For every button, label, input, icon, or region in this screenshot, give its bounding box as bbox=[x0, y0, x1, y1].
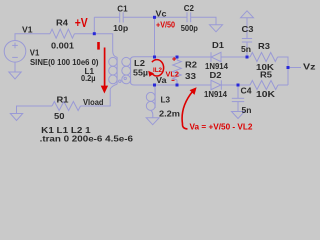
junction Vc row / R2 top bbox=[153, 56, 156, 59]
svg-text:Vload: Vload bbox=[83, 97, 104, 107]
annotation VL2 plus bbox=[172, 57, 176, 61]
node +V junction bbox=[93, 32, 96, 35]
annotation current arrow shaft bbox=[104, 48, 106, 87]
phase dot L1 bbox=[119, 80, 121, 82]
svg-text:+V: +V bbox=[75, 16, 89, 30]
junction Vz bbox=[287, 66, 290, 69]
svg-text:Vc: Vc bbox=[156, 8, 167, 18]
wire node A row (Va) bbox=[141, 84, 155, 86]
svg-text:5n: 5n bbox=[242, 105, 252, 115]
svg-text:33: 33 bbox=[185, 71, 196, 81]
flipped ground above C3 bbox=[241, 11, 254, 18]
wire D2 leads bbox=[177, 84, 211, 86]
annotation IL2 arrow head bbox=[148, 71, 154, 77]
diode D2 bbox=[211, 80, 221, 89]
wire R5 to right rail bbox=[278, 84, 288, 86]
wire R4 to node +V bbox=[75, 33, 95, 35]
inductor L2 bbox=[131, 57, 155, 59]
wire V1 top to R4 bbox=[15, 34, 50, 41]
resistor R5 bbox=[250, 81, 278, 90]
annotation VL2 minus bbox=[172, 79, 175, 81]
wire node Vc to C2 bbox=[155, 16, 188, 18]
annotation Va arrow curve bbox=[182, 92, 192, 130]
junction D2 / C4 bbox=[237, 84, 240, 87]
capacitor C2 bbox=[186, 12, 188, 22]
ground below C4 bbox=[232, 112, 245, 119]
resistor R1 bbox=[52, 102, 80, 111]
svg-text:R3: R3 bbox=[258, 41, 270, 51]
svg-text:L3: L3 bbox=[161, 94, 171, 104]
wire C2 to ground bbox=[191, 17, 216, 24]
junction Va / R2 bottom bbox=[176, 84, 179, 87]
svg-text:10p: 10p bbox=[113, 23, 128, 33]
wire Vc riser bbox=[154, 17, 156, 57]
diode D1 bbox=[211, 52, 221, 61]
svg-text:10K: 10K bbox=[256, 89, 276, 99]
svg-text:V1: V1 bbox=[22, 24, 33, 34]
wire C1 to node Vc bbox=[123, 16, 154, 18]
svg-text:0.2µ: 0.2µ bbox=[81, 73, 96, 83]
resistor R4 bbox=[50, 29, 74, 38]
svg-text:1N914: 1N914 bbox=[204, 89, 227, 99]
svg-text:R1: R1 bbox=[57, 95, 69, 105]
inductor L3 bbox=[154, 85, 157, 108]
svg-text:0.001: 0.001 bbox=[51, 40, 74, 50]
voltage source V1 bbox=[4, 41, 26, 63]
wire D2 node to R5 bbox=[238, 84, 250, 86]
svg-text:D1: D1 bbox=[212, 40, 224, 50]
wire node +V to L1 riser bbox=[94, 34, 112, 51]
annotation IL2 loop bbox=[152, 60, 164, 76]
ground below V1 bbox=[9, 72, 21, 79]
wire Vz stub bbox=[288, 67, 301, 69]
svg-text:IL2: IL2 bbox=[153, 67, 162, 74]
ground below R1 bbox=[10, 114, 22, 121]
ground below L3 bbox=[146, 118, 159, 125]
wire node Vc row to R2 junction bbox=[155, 56, 178, 58]
phase dot L2 bbox=[124, 77, 126, 79]
svg-text:Va = +V/50 - VL2: Va = +V/50 - VL2 bbox=[190, 121, 253, 131]
inductor L1 bbox=[113, 51, 117, 84]
capacitor C3 bbox=[242, 38, 252, 40]
wire R1 left to ground bbox=[17, 106, 53, 113]
svg-text:D2: D2 bbox=[210, 70, 222, 80]
wire R3 to right rail bbox=[278, 57, 288, 85]
svg-text:+V/50: +V/50 bbox=[156, 20, 175, 30]
svg-text:Vz: Vz bbox=[303, 61, 316, 71]
svg-text:VL2: VL2 bbox=[166, 69, 180, 78]
svg-text:R2: R2 bbox=[185, 60, 197, 70]
annotation current I letter bbox=[97, 42, 100, 50]
svg-text:50: 50 bbox=[54, 111, 65, 121]
annotation current arrow head bbox=[101, 86, 108, 94]
node Vc junction bbox=[153, 16, 156, 19]
junction dots bbox=[93, 16, 290, 87]
resistor R3 bbox=[247, 56, 250, 58]
annotation Va arrow head bbox=[190, 87, 197, 95]
junction D1 / C3 bbox=[246, 56, 249, 59]
wire R2 junction to D1 bbox=[177, 56, 211, 58]
capacitor C1 bbox=[119, 12, 121, 22]
ground after C2 bbox=[210, 25, 223, 32]
capacitor C4 bbox=[237, 85, 239, 98]
svg-text:5n: 5n bbox=[241, 44, 251, 54]
svg-text:C3: C3 bbox=[242, 24, 254, 34]
wire D1 to node C3 bbox=[221, 56, 247, 58]
svg-text:.tran 0 200e-6 4.5e-6: .tran 0 200e-6 4.5e-6 bbox=[40, 133, 134, 143]
resistor R2 bbox=[173, 60, 182, 80]
wire R1 right to L1 (Vload) bbox=[81, 105, 111, 107]
red annotations bbox=[75, 16, 253, 131]
wire node +V up to top rail bbox=[93, 17, 95, 33]
junction Va / L3 bbox=[153, 84, 156, 87]
svg-text:C4: C4 bbox=[241, 85, 252, 95]
wire top rail to C1 bbox=[94, 16, 119, 18]
svg-text:55µ: 55µ bbox=[133, 67, 148, 77]
svg-text:R4: R4 bbox=[56, 17, 68, 27]
wire V1 bottom to ground bbox=[14, 62, 16, 72]
black labels bbox=[22, 3, 316, 143]
svg-text:C2: C2 bbox=[184, 3, 194, 13]
svg-text:C1: C1 bbox=[117, 3, 128, 13]
svg-text:R5: R5 bbox=[260, 70, 272, 80]
svg-text:500p: 500p bbox=[181, 23, 198, 33]
svg-text:2.2m: 2.2m bbox=[159, 109, 180, 119]
